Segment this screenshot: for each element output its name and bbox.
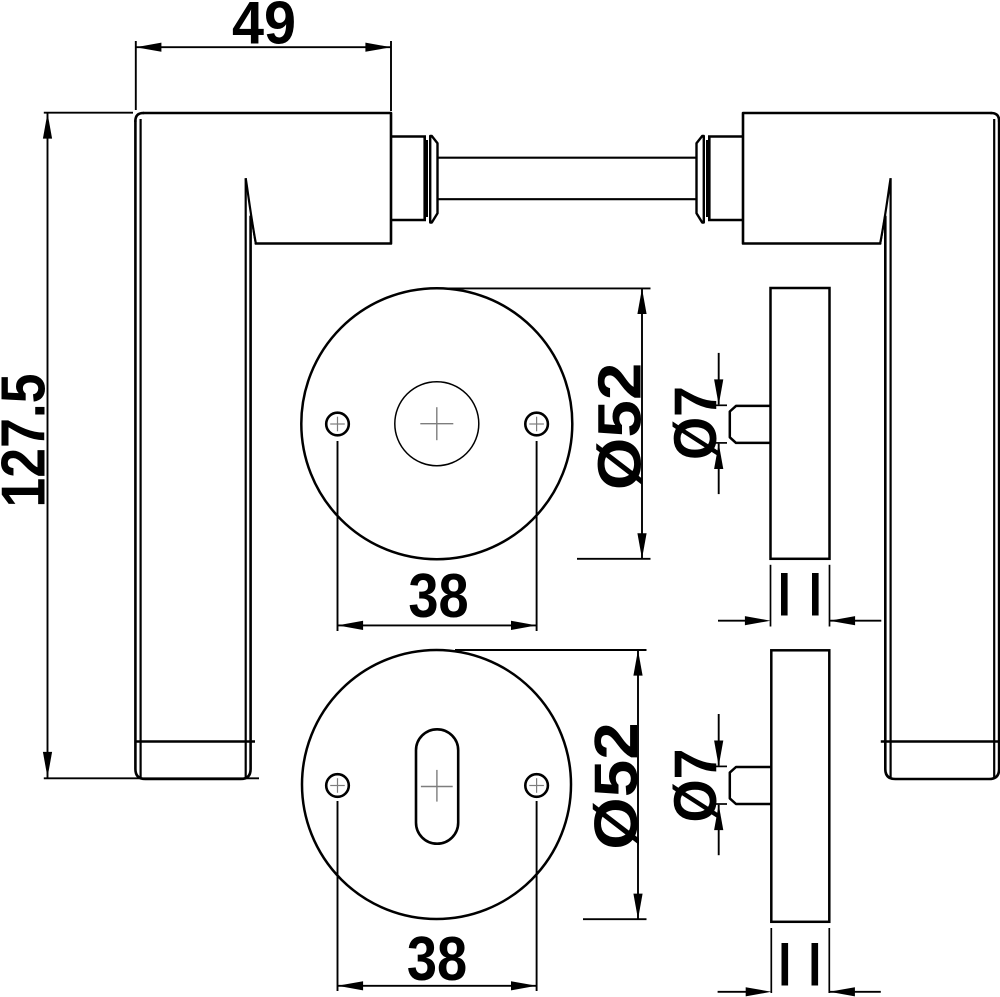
bottom rosette diameter 52 extension lines [455, 650, 647, 919]
svg-text:49: 49 [232, 0, 296, 57]
svg-text:38: 38 [408, 562, 468, 631]
bottom plate thickness arrows [718, 991, 746, 993]
svg-text:127.5: 127.5 [0, 373, 58, 507]
dimension 49 line with arrows [136, 46, 391, 48]
right handle end cap line [881, 740, 999, 742]
top diameter 7 dimension line with arrows [718, 353, 720, 494]
bottom diameter 7 dimension line with arrows [718, 714, 720, 855]
top rosette diameter 52 dimension line [641, 288, 643, 558]
bottom break mark bars [782, 943, 789, 986]
top rosette left screw cross [330, 417, 345, 432]
svg-text:Ø7: Ø7 [663, 748, 729, 822]
left flange ring [430, 136, 437, 223]
right handle fillet sliver line [881, 217, 885, 243]
bottom diameter 7 dimension ticks [712, 766, 728, 804]
left collar line [426, 140, 428, 217]
top rosette 38 extension lines [338, 441, 537, 631]
top diameter 7 dimension ticks [712, 405, 728, 443]
left neck [391, 137, 425, 221]
bottom rosette 38 extension lines [338, 801, 537, 991]
top rosette 38 dimension line [338, 624, 537, 626]
top rosette diameter 52 extension lines [444, 288, 651, 558]
spindle rod [438, 158, 697, 200]
bottom rosette right screw hole [525, 774, 548, 797]
svg-text:Ø52: Ø52 [582, 722, 650, 849]
bottom rosette center cross [421, 770, 453, 802]
svg-text:Ø7: Ø7 [663, 386, 729, 460]
top rosette right screw hole [525, 413, 548, 436]
right collar line [706, 140, 708, 217]
dimension 49 extension lines [136, 41, 391, 111]
bottom plate thickness extension lines [771, 928, 829, 993]
svg-text:Ø52: Ø52 [585, 363, 653, 490]
left handle fillet sliver line [251, 217, 255, 243]
right flange ring [697, 136, 704, 223]
bottom rosette right screw cross [529, 778, 544, 793]
top plate thickness extension lines [771, 565, 830, 627]
top rosette center cross [420, 407, 453, 440]
top side-view plate [771, 288, 830, 559]
bottom rosette left screw hole [326, 774, 349, 797]
bottom side-view spindle stub [730, 767, 772, 804]
bottom rosette diameter 52 dimension line [637, 650, 639, 919]
top rosette inner circle [395, 382, 479, 466]
right handle fillet curve [880, 178, 890, 243]
bottom rosette keyhole [416, 729, 458, 843]
bottom rosette circle [302, 650, 571, 919]
top rosette right screw cross [529, 417, 544, 432]
bottom rosette 38 dimension line [338, 985, 537, 987]
bottom side-view plate [771, 650, 829, 922]
top rosette left screw hole [326, 413, 349, 436]
top side-view spindle stub [730, 406, 771, 443]
left handle end cap line [135, 740, 255, 742]
left handle outline [135, 113, 391, 779]
right neck [709, 137, 743, 221]
left handle fillet curve [246, 178, 256, 243]
dimension 127.5 extension lines [44, 113, 259, 779]
top break mark bars [781, 573, 788, 616]
left handle inner silhouette lines [141, 119, 246, 778]
bottom rosette left screw cross [330, 778, 345, 793]
dimension 127.5 line with arrows [47, 113, 49, 778]
right handle inner silhouette lines [891, 119, 995, 778]
top plate thickness arrows [718, 620, 746, 622]
svg-text:38: 38 [407, 925, 467, 994]
top rosette circle [301, 288, 572, 559]
right handle outline [743, 113, 999, 779]
